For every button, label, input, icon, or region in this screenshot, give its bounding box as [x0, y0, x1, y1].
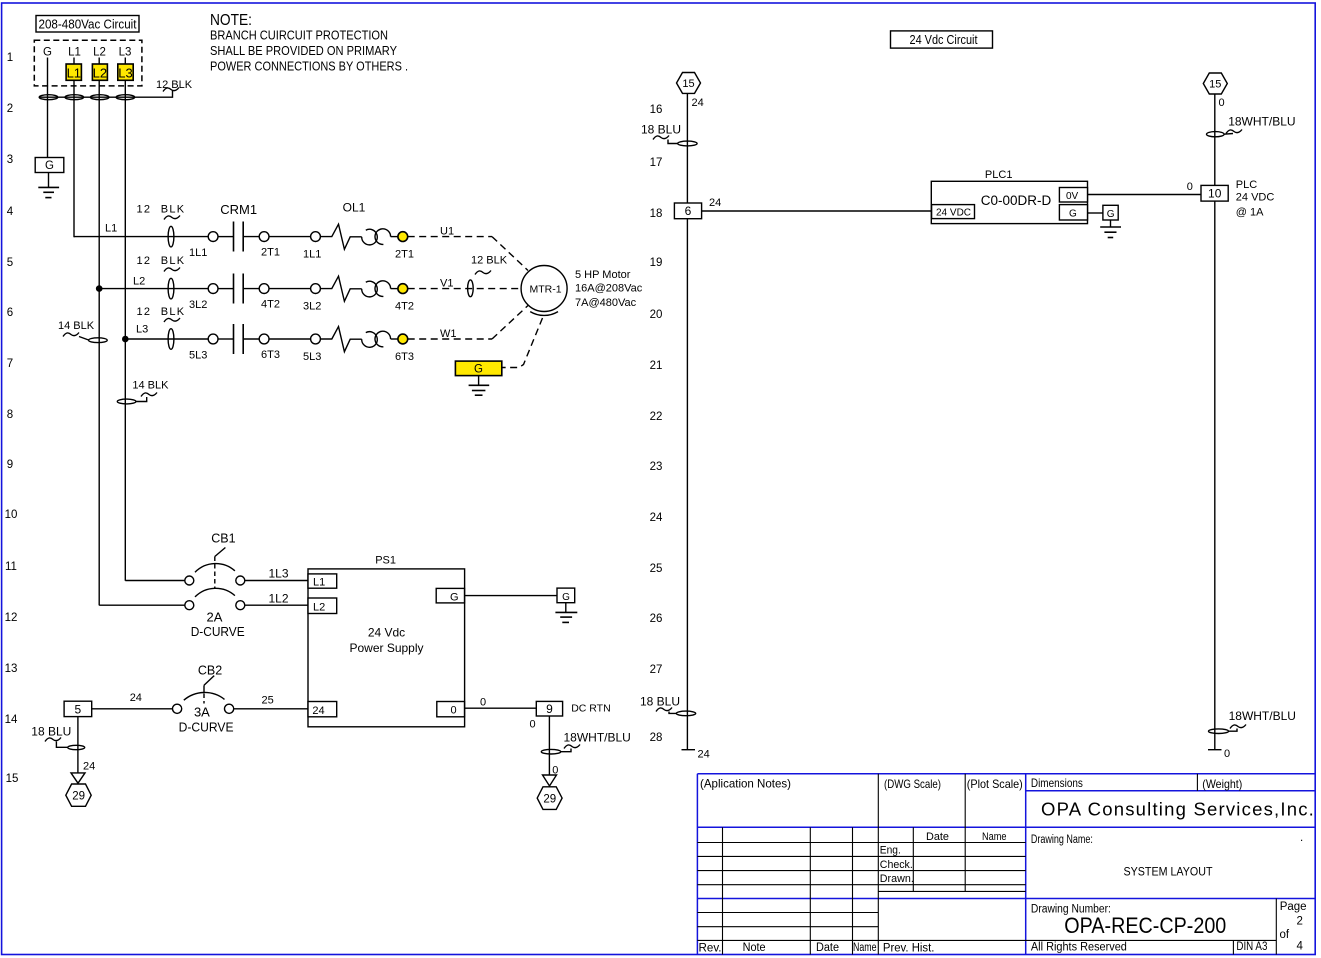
- cable marker on L2: [90, 95, 109, 100]
- svg-text:14 BLK: 14 BLK: [58, 320, 95, 332]
- svg-text:29: 29: [543, 794, 556, 806]
- circuit breaker CB2: [173, 676, 234, 714]
- svg-text:@ 1A: @ 1A: [1236, 207, 1264, 219]
- svg-text:Date: Date: [816, 942, 839, 954]
- svg-text:1L1: 1L1: [189, 247, 207, 259]
- rail 24 end tick: [682, 749, 696, 751]
- svg-text:0: 0: [1224, 748, 1230, 760]
- svg-text:12 BLK: 12 BLK: [137, 255, 186, 267]
- bottom row labels: [699, 942, 935, 955]
- wire to ground: [565, 603, 567, 613]
- cable marker rung L2: [168, 278, 174, 299]
- svg-text:of: of: [1280, 929, 1290, 941]
- title block table lines: [697, 774, 1276, 955]
- svg-text:24: 24: [312, 705, 324, 717]
- svg-text:3L2: 3L2: [189, 299, 207, 311]
- svg-text:4: 4: [7, 206, 14, 218]
- svg-text:18 BLU: 18 BLU: [31, 725, 71, 739]
- wire: [243, 236, 259, 238]
- terminal 9: [536, 701, 562, 716]
- svg-text:1L1: 1L1: [303, 249, 321, 261]
- svg-text:CB2: CB2: [198, 664, 222, 678]
- title block frame blue: [697, 774, 1315, 955]
- label 208-480Vac Circuit: [36, 16, 139, 33]
- svg-text:2T1: 2T1: [395, 249, 414, 261]
- wire motor ground dashed: [502, 318, 542, 368]
- svg-text:208-480Vac Circuit: 208-480Vac Circuit: [39, 17, 137, 32]
- svg-text:1: 1: [7, 52, 13, 64]
- wire rail 24: [686, 93, 688, 749]
- wire L3 to CB1: [125, 580, 185, 582]
- ground (supply): [38, 187, 59, 197]
- page block: [1280, 901, 1307, 953]
- svg-text:15: 15: [1209, 79, 1221, 91]
- PS1 terminal L2: [308, 598, 337, 614]
- svg-text:0V: 0V: [1066, 191, 1079, 202]
- contactor CRM1 pole 3: [234, 324, 244, 354]
- svg-text:0: 0: [1219, 97, 1225, 109]
- svg-text:5L3: 5L3: [189, 350, 207, 362]
- wire: [218, 338, 234, 340]
- PLC1 terminal G: [1059, 205, 1087, 220]
- svg-text:12 BLK: 12 BLK: [137, 306, 186, 318]
- terminal L2: [92, 64, 107, 81]
- svg-text:1L3: 1L3: [269, 567, 289, 581]
- svg-text:6: 6: [685, 204, 692, 218]
- svg-text:4: 4: [1297, 941, 1304, 953]
- svg-text:2T1: 2T1: [261, 247, 280, 259]
- wire label 14 BLK left: [58, 320, 95, 340]
- contactor CRM1 pole 2: [234, 274, 244, 304]
- svg-text:7: 7: [7, 358, 13, 370]
- svg-text:G: G: [474, 364, 483, 376]
- wire: [269, 236, 311, 238]
- svg-text:5: 5: [7, 257, 13, 269]
- svg-text:8: 8: [7, 409, 13, 421]
- svg-text:BRANCH CUIRCUIT PROTECTION: BRANCH CUIRCUIT PROTECTION: [210, 28, 388, 43]
- svg-text:Page: Page: [1280, 901, 1307, 913]
- svg-text:23: 23: [650, 461, 663, 473]
- svg-text:14: 14: [5, 714, 18, 726]
- svg-text:PLC1: PLC1: [985, 169, 1013, 181]
- svg-text:4T2: 4T2: [261, 299, 280, 311]
- svg-text:(Aplication Notes): (Aplication Notes): [700, 777, 791, 791]
- svg-text:18 BLU: 18 BLU: [640, 695, 680, 709]
- svg-text:25: 25: [262, 695, 274, 707]
- svg-text:L2: L2: [313, 602, 325, 614]
- svg-text:NOTE:: NOTE:: [210, 12, 252, 29]
- svg-text:18WHT/BLU: 18WHT/BLU: [1229, 709, 1296, 723]
- svg-text:25: 25: [650, 563, 663, 575]
- svg-text:CRM1: CRM1: [220, 202, 257, 217]
- svg-text:G: G: [1069, 209, 1077, 220]
- svg-text:Name: Name: [982, 831, 1007, 843]
- svg-text:(Weight): (Weight): [1202, 777, 1242, 791]
- svg-text:L1: L1: [313, 577, 325, 589]
- wire L2 vertical: [98, 58, 100, 606]
- cable marker rail 24 bottom: [676, 711, 695, 716]
- wire rung L3: [125, 338, 208, 340]
- svg-text:0: 0: [530, 719, 536, 731]
- PLC1 terminal 24 VDC: [932, 205, 975, 219]
- terminal G (PS1 ground): [557, 588, 575, 603]
- terminal 10: [1201, 185, 1228, 201]
- off-page connector 15 right: [1203, 73, 1227, 94]
- PS1 terminal G: [436, 588, 464, 603]
- wire W1 dashed: [408, 306, 528, 340]
- cable marker L2 drop: [89, 338, 108, 343]
- terminal L3: [118, 64, 133, 81]
- svg-text:3L2: 3L2: [303, 301, 321, 313]
- arrow down: [71, 773, 85, 783]
- terminal 5L3: [208, 334, 218, 344]
- note text: [210, 12, 408, 73]
- wire: [218, 288, 234, 290]
- ground (motor): [469, 385, 490, 395]
- terminal 3L2: [208, 284, 218, 294]
- svg-text:DC RTN: DC RTN: [571, 703, 610, 715]
- svg-text:3: 3: [7, 154, 13, 166]
- wire label 18 BLU: [31, 725, 71, 748]
- wire L2 to CB1: [99, 604, 185, 606]
- wire label 12 BLK row5: [137, 255, 186, 272]
- svg-text:4T2: 4T2: [395, 301, 414, 313]
- svg-text:L2: L2: [133, 276, 145, 288]
- wire U1 dashed: [408, 237, 528, 271]
- cable marker L3 drop: [117, 399, 136, 404]
- svg-text:G: G: [450, 592, 459, 604]
- svg-text:Drawn.: Drawn.: [880, 873, 914, 885]
- svg-text:(Plot Scale): (Plot Scale): [967, 777, 1023, 791]
- label 3A D-CURVE: [179, 705, 234, 735]
- svg-text:L3: L3: [118, 66, 132, 81]
- wire label 18WHT/BLU rail top: [1224, 115, 1295, 135]
- PLC1 terminal 0V: [1059, 188, 1087, 203]
- contactor CRM1 pole 1: [234, 222, 244, 252]
- svg-text:12 BLK: 12 BLK: [471, 255, 508, 267]
- svg-text:24: 24: [698, 749, 710, 761]
- svg-text:SYSTEM LAYOUT: SYSTEM LAYOUT: [1124, 865, 1214, 879]
- svg-text:17: 17: [650, 157, 663, 169]
- svg-text:21: 21: [650, 360, 663, 372]
- terminal G box: [35, 158, 64, 173]
- svg-text:9: 9: [7, 459, 13, 471]
- svg-text:.: .: [1300, 832, 1303, 844]
- svg-text:1L2: 1L2: [269, 592, 289, 606]
- terminal L1: [66, 64, 81, 81]
- svg-text:L2: L2: [93, 66, 107, 81]
- terminal 3L2 (OL1): [311, 284, 321, 294]
- terminal G (PLC ground): [1103, 205, 1118, 220]
- svg-text:SHALL BE PROVIDED ON PRIMARY: SHALL BE PROVIDED ON PRIMARY: [210, 43, 397, 58]
- cable marker 5 drop: [68, 745, 85, 749]
- ladder row numbers 1-15: [5, 52, 19, 785]
- label 2A D-CURVE: [191, 610, 245, 640]
- wire CB2 to PS1 24: [234, 708, 308, 710]
- svg-text:DIN A3: DIN A3: [1236, 941, 1267, 953]
- terminal 5: [64, 701, 92, 716]
- svg-text:7A@480Vac: 7A@480Vac: [575, 297, 637, 309]
- svg-text:0: 0: [451, 705, 457, 717]
- svg-text:Check.: Check.: [880, 859, 913, 871]
- wire PS1 G to ground: [465, 595, 557, 597]
- junction L2 rung: [96, 285, 103, 292]
- svg-text:2: 2: [7, 103, 13, 115]
- wire: [218, 236, 234, 238]
- circuit breaker CB1: [185, 548, 245, 610]
- svg-text:24 VDC: 24 VDC: [1236, 192, 1275, 204]
- svg-text:G: G: [562, 592, 570, 603]
- svg-text:22: 22: [650, 411, 663, 423]
- junction L3 rung: [122, 336, 129, 343]
- svg-text:W1: W1: [440, 328, 457, 340]
- wire label 12 BLK top: [156, 79, 193, 92]
- svg-text:10: 10: [1208, 187, 1222, 201]
- svg-text:24 Vdc: 24 Vdc: [368, 626, 405, 640]
- svg-text:V1: V1: [440, 278, 453, 290]
- svg-text:L3: L3: [136, 324, 148, 336]
- overload OL1 pole 2: [320, 276, 398, 301]
- svg-text:Rev.: Rev.: [699, 943, 722, 955]
- power supply PS1: [308, 569, 465, 727]
- svg-text:0: 0: [480, 696, 486, 708]
- wire label 12 BLK row6: [137, 306, 186, 322]
- svg-text:28: 28: [650, 732, 663, 744]
- wire label 14 BLK right: [132, 380, 169, 402]
- wire G to ground box: [1088, 212, 1103, 214]
- terminal 4T2 yellow: [398, 284, 408, 294]
- svg-text:C0-00DR-D: C0-00DR-D: [981, 193, 1052, 208]
- title block header texts: [700, 776, 1242, 791]
- svg-text:Prev. Hist.: Prev. Hist.: [883, 943, 935, 955]
- terminal 2T1 yellow: [398, 232, 408, 242]
- wire L1 vertical: [73, 58, 75, 238]
- motor rating text: [575, 269, 643, 309]
- svg-text:PS1: PS1: [375, 555, 396, 567]
- terminal 4T2: [259, 284, 269, 294]
- label 24 Vdc Circuit: [891, 31, 993, 48]
- PS1 terminal L1: [308, 574, 337, 589]
- wire rung L2: [99, 288, 208, 290]
- svg-text:(DWG Scale): (DWG Scale): [884, 777, 941, 791]
- wire G vertical: [47, 58, 49, 158]
- svg-text:24: 24: [130, 692, 142, 704]
- svg-text:18WHT/BLU: 18WHT/BLU: [564, 731, 631, 745]
- wire to ground: [478, 376, 480, 386]
- svg-text:10: 10: [5, 509, 18, 521]
- svg-text:9: 9: [546, 702, 553, 716]
- wire label 18WHT/BLU: [561, 731, 631, 752]
- wire G box to ground: [48, 173, 50, 188]
- off-page connector 29: [537, 787, 562, 810]
- wire label 12 BLK row4: [137, 204, 186, 220]
- dashed supply terminal box: [34, 40, 142, 86]
- svg-text:0: 0: [1187, 181, 1193, 193]
- svg-text:CB1: CB1: [211, 532, 235, 546]
- svg-text:6T3: 6T3: [395, 351, 414, 363]
- svg-text:Date: Date: [926, 831, 949, 843]
- wire: [243, 288, 259, 290]
- cable marker rail 24 top: [678, 141, 697, 146]
- svg-text:Dimensions: Dimensions: [1031, 776, 1083, 790]
- revision table mini texts: [880, 831, 1007, 885]
- svg-text:6T3: 6T3: [261, 349, 280, 361]
- rail 0 end tick: [1208, 749, 1222, 751]
- svg-text:15: 15: [682, 78, 694, 90]
- off-page connector 29: [66, 784, 91, 806]
- svg-text:OPA Consulting Services,Inc.: OPA Consulting Services,Inc.: [1041, 799, 1315, 820]
- svg-text:D-CURVE: D-CURVE: [191, 624, 245, 639]
- svg-text:U1: U1: [440, 226, 454, 238]
- wire to ground: [1110, 220, 1112, 227]
- svg-text:16: 16: [650, 104, 663, 116]
- wire label 18 BLU rail bottom: [640, 695, 680, 714]
- svg-text:26: 26: [650, 613, 663, 625]
- PLC1 box: [931, 181, 1087, 223]
- cable marker rung L3: [168, 329, 174, 350]
- svg-text:24: 24: [692, 97, 704, 109]
- cable marker on L3: [116, 95, 135, 100]
- svg-text:2: 2: [1297, 916, 1303, 928]
- svg-text:6: 6: [7, 307, 13, 319]
- wire 9 drop: [548, 716, 550, 775]
- svg-text:G: G: [43, 47, 52, 59]
- cable marker rung L1: [168, 226, 174, 247]
- svg-text:PLC: PLC: [1236, 179, 1257, 191]
- terminal 1L1 (OL1): [311, 232, 321, 242]
- wire 5 drop: [77, 717, 79, 773]
- svg-text:15: 15: [6, 773, 19, 785]
- terminal 6T3 yellow: [398, 334, 408, 344]
- svg-text:12 BLK: 12 BLK: [156, 79, 193, 91]
- ladder row numbers 16-28: [650, 104, 663, 744]
- svg-text:3A: 3A: [194, 705, 210, 720]
- svg-text:27: 27: [650, 664, 663, 676]
- cable marker on L1: [65, 95, 84, 100]
- svg-text:L1: L1: [67, 66, 81, 81]
- svg-text:19: 19: [650, 257, 663, 269]
- svg-text:G: G: [45, 160, 54, 172]
- svg-text:L1: L1: [68, 47, 81, 59]
- arrow down: [543, 775, 557, 786]
- motor MTR-1: [521, 266, 567, 316]
- wire 0V to 10: [1088, 194, 1202, 196]
- label PLC 24 VDC @ 1A: [1236, 179, 1275, 219]
- cable marker rail 0 bottom: [1209, 729, 1229, 734]
- wire CB1 to PS1 L2: [245, 604, 308, 606]
- wire 6 to PLC: [702, 210, 932, 212]
- off-page connector 15 left: [677, 73, 701, 94]
- wire CB1 to PS1 L1: [245, 580, 308, 582]
- terminal 1L1: [208, 232, 218, 242]
- svg-text:Power Supply: Power Supply: [349, 641, 423, 655]
- svg-text:Note: Note: [743, 942, 766, 954]
- wire L3 vertical: [124, 58, 126, 581]
- ground (PLC): [1100, 227, 1121, 238]
- svg-text:L2: L2: [93, 47, 106, 59]
- wire: [269, 288, 311, 290]
- svg-text:L1: L1: [105, 223, 117, 235]
- terminal 5L3 (OL1): [311, 334, 321, 344]
- PS1 terminal 0: [437, 702, 465, 717]
- svg-text:18WHT/BLU: 18WHT/BLU: [1228, 115, 1295, 129]
- cable bus wire: [39, 91, 173, 98]
- svg-text:MTR-1: MTR-1: [529, 284, 561, 296]
- wire rung L1: [74, 236, 208, 238]
- wire PS1 0 to 9: [465, 707, 537, 709]
- svg-text:Name: Name: [853, 942, 877, 954]
- label 24 Vdc Power Supply: [349, 626, 423, 655]
- overload OL1 pole 3: [320, 327, 398, 352]
- svg-text:14 BLK: 14 BLK: [132, 380, 169, 392]
- svg-text:29: 29: [72, 791, 85, 803]
- svg-text:5: 5: [75, 703, 82, 717]
- wire label 18WHT/BLU rail bottom: [1229, 709, 1296, 731]
- overload OL1 pole 1: [320, 224, 398, 249]
- svg-text:12 BLK: 12 BLK: [137, 204, 186, 216]
- cable marker 9 drop: [541, 749, 560, 754]
- wire: [269, 338, 311, 340]
- wire rail 0: [1214, 94, 1216, 750]
- terminal 2T1: [259, 232, 269, 242]
- svg-text:16A@208Vac: 16A@208Vac: [575, 283, 643, 295]
- svg-text:11: 11: [5, 561, 17, 573]
- svg-text:5L3: 5L3: [303, 351, 321, 363]
- svg-text:13: 13: [5, 663, 18, 675]
- svg-text:OL1: OL1: [343, 201, 366, 215]
- svg-text:5 HP Motor: 5 HP Motor: [575, 269, 631, 281]
- svg-text:24: 24: [650, 512, 663, 524]
- svg-text:2A: 2A: [207, 610, 223, 625]
- terminal 6: [674, 203, 701, 219]
- wire label 18 BLU rail top: [641, 123, 681, 144]
- svg-text:Eng.: Eng.: [880, 845, 901, 857]
- svg-text:24: 24: [83, 761, 95, 773]
- svg-text:24: 24: [709, 197, 721, 209]
- svg-text:20: 20: [650, 309, 663, 321]
- terminal G motor yellow: [455, 361, 501, 376]
- wire 5 to CB2: [92, 708, 173, 710]
- PS1 terminal 24: [308, 702, 337, 718]
- svg-text:D-CURVE: D-CURVE: [179, 720, 234, 735]
- svg-text:Drawing Name:: Drawing Name:: [1031, 834, 1093, 846]
- svg-text:18: 18: [650, 208, 663, 220]
- svg-text:L3: L3: [119, 47, 132, 59]
- svg-text:All Rights Reserved: All Rights Reserved: [1031, 942, 1127, 954]
- wire V1 dashed: [408, 288, 522, 290]
- svg-text:12: 12: [5, 612, 18, 624]
- cable marker V1: [468, 280, 474, 297]
- svg-text:24 Vdc Circuit: 24 Vdc Circuit: [910, 33, 978, 47]
- wire label 12 BLK motor: [471, 255, 508, 275]
- cable marker on G: [39, 95, 58, 100]
- svg-text:OPA-REC-CP-200: OPA-REC-CP-200: [1064, 913, 1226, 938]
- wire: [243, 338, 259, 340]
- svg-text:18 BLU: 18 BLU: [641, 123, 681, 137]
- ground (PS1): [555, 612, 577, 622]
- svg-text:24 VDC: 24 VDC: [936, 208, 971, 219]
- svg-text:G: G: [1107, 209, 1115, 220]
- svg-text:POWER CONNECTIONS BY OTHERS .: POWER CONNECTIONS BY OTHERS .: [210, 58, 408, 73]
- terminal 6T3: [259, 334, 269, 344]
- cable marker rail 0 top: [1207, 132, 1225, 137]
